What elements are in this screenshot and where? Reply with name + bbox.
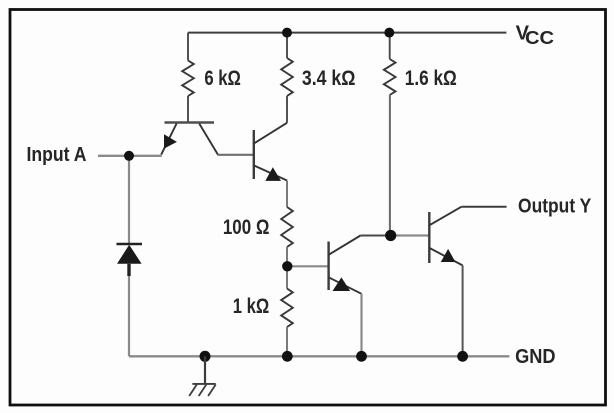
transistor Q4 emitter arrow <box>441 249 456 262</box>
transistor Q2 emitter arrow <box>265 167 281 181</box>
wire Q1 collector to Q2 base <box>218 154 254 156</box>
node dot on VCC rail above 3.4k <box>282 28 292 38</box>
ground symbol stub <box>204 356 206 384</box>
node dot rail/Q4 emitter <box>457 351 468 362</box>
wire Q2 emitter down to 100 ohm <box>286 181 288 208</box>
node dot rail/ground stub <box>200 351 211 362</box>
node dot collector junction <box>385 230 396 241</box>
transistor Q4 emitter line <box>429 248 462 266</box>
resistor 6k zigzag <box>182 61 194 97</box>
label VCC <box>516 22 554 48</box>
resistor 6k wire top <box>187 33 189 61</box>
transistor Q1 emitter arrow <box>164 134 177 148</box>
diode D1 triangle <box>117 245 142 264</box>
resistor 1.6k wire top <box>389 33 391 59</box>
node dot rail/Q3 emitter <box>356 351 367 362</box>
ground symbol hatch 1 <box>189 385 197 397</box>
ground symbol bar <box>192 383 215 385</box>
transistor Q2 base bar <box>253 130 255 179</box>
transistor Q1 emitter line <box>161 124 176 155</box>
transistor Q4 base bar <box>428 212 430 263</box>
wire 100ohm to 1k <box>286 247 288 289</box>
wire diode column bottom <box>128 276 130 356</box>
svg-text:1 kΩ: 1 kΩ <box>233 295 270 318</box>
transistor Q4 collector line <box>429 207 461 226</box>
transistor Q3 emitter line <box>329 277 362 294</box>
wire Q3 base <box>287 265 328 267</box>
transistor Q1 collector line <box>199 124 218 155</box>
resistor 6k wire bottom <box>187 96 189 123</box>
svg-text:1.6 kΩ: 1.6 kΩ <box>405 67 457 90</box>
wire 1.6k down to collector node <box>389 95 391 236</box>
wire node to Q4 base <box>391 234 430 236</box>
node input A dot <box>124 151 134 161</box>
ground symbol hatch 3 <box>208 385 216 397</box>
transistor Q1 base bar <box>165 121 215 123</box>
node dot on VCC rail above 1.6k <box>384 28 394 38</box>
wire 1k down to ground rail <box>286 327 288 356</box>
diode D1 anode stub <box>127 264 130 276</box>
svg-text:Output Y: Output Y <box>518 196 592 218</box>
transistor Q3 base bar <box>327 242 329 291</box>
svg-text:GND: GND <box>515 346 556 368</box>
svg-text:100 Ω: 100 Ω <box>223 216 270 239</box>
transistor Q3 collector line <box>329 236 361 255</box>
node dot junction 100ohm/1k/Q3 base <box>282 261 292 271</box>
transistor Q2 emitter line <box>254 165 287 180</box>
wire VCC rail <box>188 32 506 34</box>
wire Q3 emitter down to rail <box>360 294 362 357</box>
resistor 1.6k zigzag <box>384 59 396 95</box>
resistor 3.4k wire top <box>286 33 288 58</box>
wire Q4 collector to output <box>461 206 506 208</box>
svg-text:6 kΩ: 6 kΩ <box>204 67 241 90</box>
wire diode column top <box>128 156 130 244</box>
transistor Q2 collector line <box>254 123 287 144</box>
wire ground rail <box>129 355 509 357</box>
svg-text:3.4 kΩ: 3.4 kΩ <box>302 67 356 90</box>
svg-text:Input A: Input A <box>27 144 87 166</box>
ground symbol hatch 2 <box>199 385 207 397</box>
wire Q3 collector to node <box>361 235 391 237</box>
resistor 3.4k wire bottom <box>286 96 288 123</box>
resistor 100ohm zigzag <box>281 207 293 247</box>
node dot rail/1k <box>282 351 293 362</box>
wire Q4 emitter down to rail <box>462 265 464 356</box>
resistor 1k zigzag <box>281 289 293 328</box>
wire input horizontal <box>98 155 162 157</box>
svg-text:CC: CC <box>525 27 554 48</box>
transistor Q3 emitter arrow <box>333 277 351 291</box>
diode D1 cathode bar <box>117 243 143 246</box>
resistor 3.4k zigzag <box>281 58 293 96</box>
